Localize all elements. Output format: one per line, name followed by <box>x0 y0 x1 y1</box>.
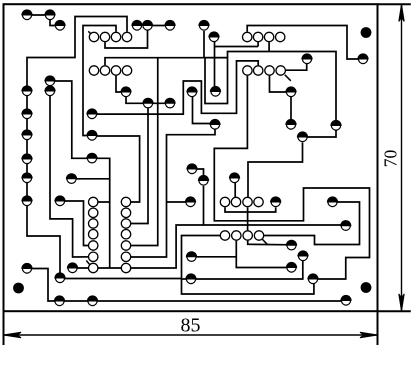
via C1-1 <box>89 197 98 206</box>
dimension line 70 <box>401 4 403 311</box>
extension line left-down <box>3 311 5 345</box>
via C2-2 <box>121 208 130 217</box>
pad P33 <box>185 196 196 206</box>
via A2-2 <box>100 66 109 75</box>
pad P15 <box>66 173 77 183</box>
wire w15b P33 branch <box>167 201 191 203</box>
wire w20b P42 to circle D2-1 <box>182 236 314 295</box>
pad P14 <box>86 153 97 163</box>
via A1-3 <box>111 32 120 41</box>
hole H1 <box>13 283 24 294</box>
pad P50 <box>340 220 351 230</box>
wire w16 P13 to circle C2-1 <box>92 136 140 202</box>
via B1-2 <box>253 32 262 41</box>
box U1 outline around pad P29 <box>205 58 228 104</box>
via C1-2 <box>89 208 98 217</box>
arrow down <box>399 294 404 311</box>
pad P45 <box>285 119 296 129</box>
pad P7 <box>21 129 32 139</box>
pad P47 <box>330 120 341 130</box>
via D2-2 <box>232 231 241 240</box>
wire w41 P44 to P45 <box>290 92 292 125</box>
pad P6 <box>21 108 32 118</box>
via A2-1 <box>89 66 98 75</box>
pad P17 <box>21 263 32 273</box>
wire w30 P2b P5? P... P pad50-81 chain <box>50 81 92 158</box>
wire w10 P30 to P29 <box>214 37 216 92</box>
extension line right-down <box>377 311 379 345</box>
wire w10b branch to circle B1-2 <box>215 46 259 48</box>
pad P25 <box>142 20 153 30</box>
pad P32 <box>229 172 240 182</box>
via B2-4 <box>276 66 285 75</box>
via D2-3 <box>243 231 252 240</box>
pad P43 <box>297 131 308 141</box>
wire w23 circle D1-3 to D2-3 <box>247 207 249 230</box>
pad P44 <box>285 86 296 96</box>
pointer D2-4 <box>262 239 268 245</box>
wire w22 P32 to circle D1-2 <box>234 178 236 202</box>
via A1-1 <box>89 32 98 41</box>
wire w19 circle A2-3 to P21 <box>116 76 126 92</box>
pad P20 <box>87 295 98 305</box>
wire w2 P2 to P3 <box>50 15 60 26</box>
pad P24 <box>131 20 142 30</box>
pad P26 <box>164 20 175 30</box>
wire w36 P17 to P51 long bottom line <box>27 269 346 302</box>
wire w28b P36 stub <box>203 186 205 225</box>
via D2-1 <box>220 231 229 240</box>
wire w11 circle B1-1 to P48 <box>247 26 363 60</box>
pad P37 <box>186 163 197 173</box>
wire w28c P37 to P36 <box>192 169 204 181</box>
pad P13 <box>86 130 97 140</box>
via C2-4 <box>121 230 130 239</box>
pad P4 <box>21 85 32 95</box>
pad P30 <box>208 31 219 41</box>
via B1-3 <box>264 32 273 41</box>
wire w29 P14 to circle C2-7 bus <box>92 158 110 268</box>
pad P12 <box>86 108 97 118</box>
pad P5 <box>44 85 55 95</box>
pad P42 <box>307 273 318 283</box>
wire w5 circle A1-2 to P25 <box>105 26 148 48</box>
pad P36 <box>198 175 209 185</box>
wire w25 circle D2-3 to P39 <box>248 241 292 245</box>
hole H3 <box>361 282 372 293</box>
pad P40 <box>286 262 297 272</box>
extension line top <box>378 3 411 5</box>
via C1-7 <box>89 263 98 272</box>
wire w18 P21 to P23 <box>126 92 170 103</box>
via B2-2 <box>254 66 263 75</box>
via C2-3 <box>121 219 130 228</box>
pad P21 <box>120 86 131 96</box>
pad P35 <box>185 273 196 283</box>
via C1-3 <box>89 219 98 228</box>
arrow up <box>399 4 404 21</box>
wire w32 P11 to circle C1-5 <box>60 201 93 246</box>
pad P28 <box>186 86 197 96</box>
wire w9 bus tap to circle C2-5 <box>126 58 158 246</box>
wire w29c P15 branch <box>72 178 110 180</box>
wire w15 P31 to circle C2-6 <box>126 125 215 258</box>
wire w21 circle D1-1 to P38 <box>225 207 276 212</box>
via C1-5 <box>89 241 98 250</box>
wire w20 big loop B2-1 to P42 <box>214 76 369 279</box>
wire w12 P43 to circle D1-3 <box>248 143 303 203</box>
pad P34 <box>186 251 197 261</box>
via B1-4 <box>276 32 285 41</box>
via C2-5 <box>121 241 130 250</box>
via B2-1 <box>243 66 252 75</box>
via C1-4 <box>89 230 98 239</box>
wire w37 P25 to P26 <box>148 25 171 27</box>
via C2-6 <box>121 252 130 261</box>
pad P11 <box>54 195 65 205</box>
via D1-4 <box>254 197 263 206</box>
wire w27 P35 to P41 <box>191 256 303 279</box>
via C1-6 <box>89 252 98 261</box>
wire w31 P5 to circle C1-6 <box>50 91 93 257</box>
via A1-2 <box>100 32 109 41</box>
pointer C1-7 <box>86 261 90 266</box>
wire w7c circle B1-3 stub <box>268 42 270 51</box>
wire w7b box to B1-3 stub line to P47 <box>228 52 337 138</box>
via D2-4 <box>254 231 263 240</box>
pad P51 <box>340 295 351 305</box>
svg-text:70: 70 <box>381 150 401 168</box>
wire w6 bus y57.7 from circle A2-2 <box>105 58 228 66</box>
pad P18 <box>54 272 65 282</box>
dimension line 85 <box>4 334 378 336</box>
wire w3 circle A1-4 to col x27 to P18 <box>27 17 127 279</box>
pad P23 <box>164 98 175 108</box>
wire w17 P22 to circle C2-3 <box>126 103 148 223</box>
via D1-1 <box>220 197 229 206</box>
wire w39 circle B2-4 to P46 <box>286 59 307 70</box>
svg-text:85: 85 <box>181 315 201 337</box>
pad P46 <box>301 53 312 63</box>
pad P2 <box>44 9 55 19</box>
wire w24b P34 branch <box>192 256 237 258</box>
wire w40 circle B2-3 to P44 <box>270 76 292 92</box>
pad P49 <box>327 196 338 206</box>
wire w10c circle B1-2 stub <box>257 42 259 46</box>
pad P31 <box>209 119 220 129</box>
wire w24 circle D2-2 to P40 <box>236 241 291 268</box>
pad P16 <box>67 262 78 272</box>
pad P39 <box>286 240 297 250</box>
pad P8 <box>21 153 32 163</box>
via C2-1 <box>121 197 130 206</box>
wire w26 P49 to circle D2-4 <box>259 202 360 245</box>
via D1-3 <box>243 197 252 206</box>
pad P3 <box>54 20 65 30</box>
wire w8 P27 stub <box>203 31 205 58</box>
arrow right <box>360 332 378 337</box>
via A2-4 <box>122 66 131 75</box>
pad P48 <box>357 53 368 63</box>
wire w28 P16 long line to P50 <box>73 225 346 268</box>
pad P41 <box>297 250 308 260</box>
pad P9 <box>21 172 32 182</box>
via C2-7 <box>121 263 130 272</box>
board outline <box>4 4 378 311</box>
wire w14 P28 to P31 <box>193 92 216 124</box>
wire w13 circle B2-2 around to P12 <box>92 61 258 114</box>
pad P10 <box>21 195 32 205</box>
pad P19 <box>54 295 65 305</box>
wire w29b circle C1-1 branch <box>93 201 110 203</box>
pad P27 <box>198 20 209 30</box>
pad P52 <box>44 75 55 85</box>
via A1-4 <box>122 32 131 41</box>
wire w1 pad P1 to P2 <box>27 14 50 16</box>
via B2-3 <box>265 66 274 75</box>
extension line bottom-right <box>378 310 411 312</box>
via B1-1 <box>243 32 252 41</box>
pointer B2-4 <box>285 75 291 81</box>
pad P22 <box>142 98 153 108</box>
hole H2 <box>361 27 372 38</box>
pad P38 <box>270 196 281 206</box>
wire w20c P35 stub <box>182 278 192 280</box>
via A2-3 <box>111 66 120 75</box>
pointer A1-1 <box>88 31 92 35</box>
wire w38 P18 to loop vertical <box>60 278 182 280</box>
wire w4 circle A1-3 to P13 <box>83 26 116 136</box>
pad P1 <box>21 9 32 19</box>
pad P29 <box>210 86 221 96</box>
via D1-2 <box>231 197 240 206</box>
arrow left <box>4 332 22 337</box>
